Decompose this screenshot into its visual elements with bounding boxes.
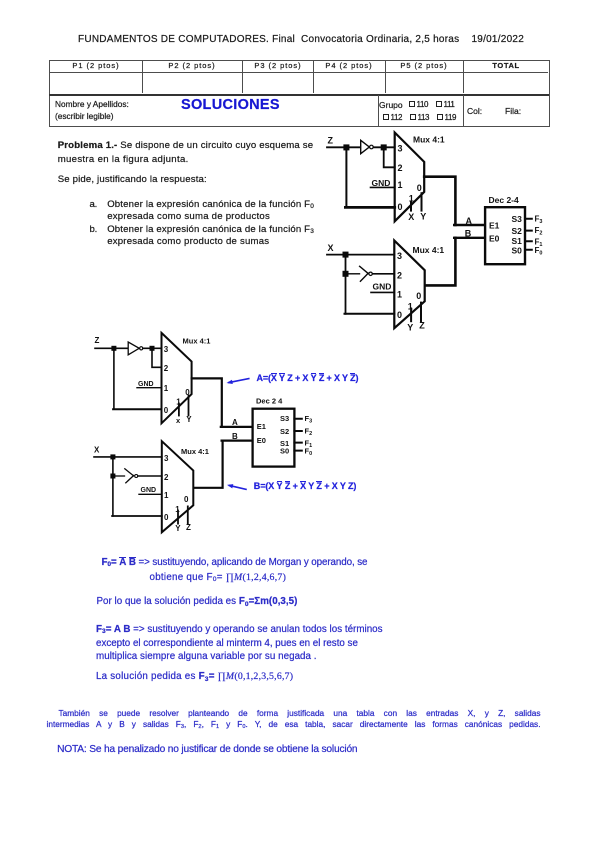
decoder pin labels E1 E0 S3 S2 S1 S0 (fig2) (257, 414, 289, 455)
svg-text:A: A (466, 216, 473, 226)
node Z label (fig2) (95, 336, 100, 345)
wire node B vertical from mux B output (fig2) (193, 441, 222, 488)
mux U2 pin labels 3 2 1 0 (397, 251, 402, 320)
mux U1 select pins (1,0) with nets X Y (408, 183, 426, 222)
junction J3 on X wire (343, 252, 349, 258)
wire mux A output to node A (fig2) (192, 378, 222, 427)
svg-text:1: 1 (398, 180, 403, 190)
svg-text:Z: Z (419, 320, 425, 330)
wire J5 to mux A input 0 (113, 350, 161, 409)
svg-text:F2: F2 (535, 226, 543, 237)
node B wire into decoder E0 (fig2) (222, 432, 253, 441)
mux U2 select pins (1,0) with nets Y Z (407, 291, 425, 333)
svg-text:1: 1 (164, 491, 169, 500)
junction J1 on Z wire (343, 144, 349, 150)
svg-text:S0: S0 (512, 245, 523, 255)
svg-text:3: 3 (398, 144, 403, 154)
svg-text:Y: Y (186, 415, 192, 424)
svg-text:F2: F2 (305, 426, 313, 437)
svg-text:0: 0 (417, 183, 422, 193)
ground GND at mux A input 1 (137, 381, 162, 388)
svg-text:1: 1 (175, 505, 180, 514)
bottom blue paragraph (47, 709, 541, 717)
svg-text:Mux 4:1: Mux 4:1 (183, 337, 211, 346)
svg-text:X: X (94, 446, 100, 455)
svg-text:F3: F3 (535, 214, 543, 225)
svg-text:0: 0 (164, 406, 169, 415)
svg-text:0: 0 (184, 495, 189, 504)
node A wire into decoder E1 (fig2) (221, 418, 253, 427)
svg-text:Mux 4:1: Mux 4:1 (413, 135, 445, 145)
wire Z to inverter (fig2) (95, 347, 128, 349)
decoder output stubs (fig2) (294, 419, 301, 451)
svg-text:Y: Y (420, 211, 426, 221)
junction J4 below J3 (343, 271, 349, 277)
wire J7 down to mux B input 0 (112, 458, 162, 516)
svg-text:Mux 4:1: Mux 4:1 (413, 245, 445, 255)
mux B select pins (1,0) nets Y Z (175, 495, 191, 533)
blue expression B (254, 482, 356, 491)
svg-text:0: 0 (164, 513, 169, 522)
wire X to mux B input 3 (94, 456, 162, 458)
blue expression A (257, 374, 359, 383)
mux U1 body (Mux 4:1 upper) (395, 133, 445, 222)
junction J2 after inverter (381, 144, 387, 150)
mux A body (Mux 4:1 upper) (162, 333, 211, 423)
svg-text:Y: Y (175, 524, 181, 533)
mux A select pins (1,0) nets x Y (176, 388, 192, 425)
node B wire into decoder E0 (454, 229, 485, 239)
svg-text:Dec 2 4: Dec 2 4 (256, 396, 283, 405)
svg-text:S2: S2 (280, 427, 289, 436)
svg-text:B: B (232, 432, 238, 441)
mux U1 pin labels 3 2 1 0 (398, 144, 403, 212)
blue notes (102, 558, 368, 568)
wire J3 down through J4 to input 0 level (345, 256, 395, 314)
svg-text:Y: Y (407, 323, 413, 333)
svg-text:2: 2 (164, 364, 169, 373)
wire mux U1 output to node A (424, 177, 455, 225)
mux A pin labels 3 2 1 0 (164, 345, 169, 415)
svg-text:A: A (232, 418, 238, 427)
problem statement (58, 141, 314, 151)
svg-text:x: x (176, 416, 181, 425)
svg-text:1: 1 (176, 397, 181, 406)
svg-text:Z: Z (186, 523, 191, 532)
svg-text:1: 1 (408, 302, 413, 312)
net F3 F2 F1 F0 labels (fig2) (305, 414, 313, 457)
header line (78, 35, 524, 45)
svg-text:2: 2 (398, 163, 403, 173)
node X label (fig2) (94, 446, 100, 455)
svg-text:0: 0 (185, 388, 190, 397)
svg-text:2: 2 (397, 270, 402, 280)
svg-text:0: 0 (398, 202, 403, 212)
wire inverter to mux A input 3 (143, 347, 162, 349)
mux B body (Mux 4:1 lower fig2) (162, 441, 209, 532)
svg-text:0: 0 (397, 310, 402, 320)
node Z label (328, 136, 334, 146)
node A wire into decoder E1 (454, 216, 485, 226)
svg-text:GND: GND (372, 178, 391, 188)
svg-text:E0: E0 (257, 436, 266, 445)
junction J5 on Z wire (fig2) (111, 346, 116, 351)
svg-text:S3: S3 (512, 214, 523, 224)
svg-text:1: 1 (397, 290, 402, 300)
svg-text:GND: GND (141, 487, 157, 494)
svg-text:GND: GND (138, 381, 154, 388)
wire J6 to mux A input 2 (152, 350, 162, 367)
node X label (328, 243, 334, 253)
svg-text:1: 1 (164, 384, 169, 393)
inverter G1 (NOT gate on Z) (361, 140, 374, 153)
inverter G4 (hand-drawn NOT) to mux B input 2 (115, 469, 161, 483)
svg-text:E1: E1 (257, 422, 266, 431)
junction J8 below J7 (fig2) (110, 474, 115, 479)
inverter G3 (NOT gate fig2) (128, 342, 143, 355)
blue arrow to node A annotation (227, 379, 249, 384)
junction J6 after inverter (fig2) (150, 346, 155, 351)
decoder U3 output stubs (525, 219, 532, 250)
svg-text:1: 1 (409, 194, 414, 204)
svg-text:X: X (328, 243, 334, 253)
svg-text:S3: S3 (280, 414, 289, 423)
wire J2 to mux U1 input 2 (384, 149, 395, 167)
svg-text:Dec 2-4: Dec 2-4 (489, 195, 520, 205)
svg-text:B: B (465, 229, 472, 239)
svg-text:S2: S2 (512, 226, 523, 236)
wire X to mux U2 input 3 (327, 254, 394, 256)
svg-text:2: 2 (164, 473, 169, 482)
ground GND at mux B input 1 (139, 487, 162, 494)
junction J7 on X wire (fig2) (110, 454, 115, 459)
decoder U3 Dec 2-4 body (485, 195, 525, 264)
svg-text:3: 3 (397, 251, 402, 261)
svg-text:3: 3 (164, 454, 169, 463)
ground GND at mux U1 input 1 (371, 178, 395, 188)
svg-text:E1: E1 (489, 220, 500, 230)
svg-text:E0: E0 (489, 234, 500, 244)
mux U2 body (Mux 4:1 lower) (394, 241, 444, 329)
svg-text:F3: F3 (305, 414, 313, 425)
wire inverter output to mux U1 input 3 (373, 146, 394, 148)
wire J1 to mux U1 input 0 (345, 149, 394, 207)
wire node B vertical from mux U2 output (425, 238, 456, 286)
ground GND at mux U2 input 1 (371, 282, 394, 293)
svg-text:0: 0 (416, 291, 421, 301)
score/name table (49, 60, 550, 128)
svg-text:Z: Z (95, 336, 100, 345)
svg-text:GND: GND (373, 282, 392, 292)
wire Z input to inverter (327, 146, 361, 148)
mux B pin labels 3 2 1 0 (164, 454, 169, 522)
inverter G2 (hand-drawn NOT) to mux U2 input 2 (349, 266, 395, 281)
decoder Dec 2-4 body (fig2) (253, 396, 295, 466)
svg-text:3: 3 (164, 345, 169, 354)
svg-text:X: X (408, 212, 414, 222)
svg-text:Mux 4:1: Mux 4:1 (181, 447, 209, 456)
decoder U3 pin labels E1 E0 S3 S2 S1 S0 (489, 214, 522, 256)
svg-text:S0: S0 (280, 446, 289, 455)
svg-text:Z: Z (328, 136, 334, 146)
net F3 F2 F1 F0 labels (535, 214, 543, 256)
blue arrow to node B annotation (227, 484, 246, 489)
